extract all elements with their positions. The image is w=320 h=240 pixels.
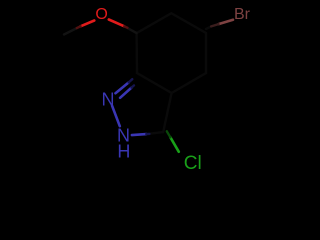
bond N1-C3 (blue half) (132, 134, 146, 135)
molecule: 5-bromo-3-chloro-7-methoxy-2H-indazole on black background (0, 0, 300, 176)
svg-text:Cl: Cl (184, 153, 202, 174)
double bond N2=C7a line 1 (blue half) (116, 82, 129, 93)
bond C3-Cl (green half) (170, 137, 179, 152)
wire skeleton (carbon bonds, near-invisible) (137, 13, 211, 134)
bond O-C7 (carbon half, faint) (124, 26, 136, 33)
bond N2-N1 (blue) (112, 106, 120, 126)
bond O-CH3 (red half) (81, 21, 95, 27)
svg-text:O: O (95, 6, 107, 23)
bond O-CH3 (carbon half, faint) (64, 27, 80, 35)
bond O-C7 (red half) (109, 20, 125, 27)
double bond N2=C7a line 2 (blue half) (120, 88, 131, 98)
svg-text:N: N (102, 90, 115, 110)
bond C5-Br (Br half) (219, 20, 234, 24)
svg-text:H: H (117, 141, 130, 161)
svg-text:Br: Br (234, 6, 251, 23)
